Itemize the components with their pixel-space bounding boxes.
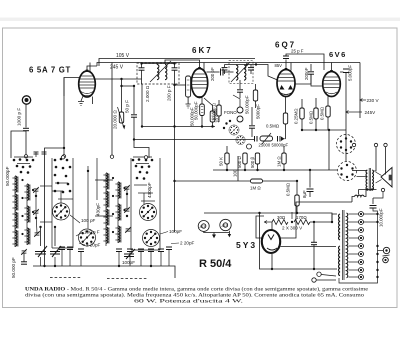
switch wafer A2	[79, 229, 96, 246]
mains terminal top	[381, 188, 384, 191]
6SA7 bottom lead	[92, 97, 94, 105]
tube 5Y3 rectifier	[262, 230, 280, 253]
resistors 30/170 ohm line	[264, 221, 272, 224]
vertical drops to bus	[41, 250, 170, 266]
vertical link to wafer A2	[87, 166, 89, 229]
6V6 plate drop wire	[345, 73, 347, 136]
6Q7 grid wire from IF2	[256, 65, 278, 81]
transformer tap circles column	[359, 212, 364, 280]
tube 6K7	[191, 69, 207, 98]
IF1 to 6K7 grid	[165, 60, 200, 69]
IF1 primary coil	[157, 65, 159, 80]
capacitor 50.000pF left	[251, 107, 253, 125]
power transformer primary lower	[339, 246, 340, 276]
ladder rungs column 2	[95, 180, 113, 216]
ATS jack right	[220, 219, 231, 230]
svg-text:200pF: 200pF	[304, 67, 309, 80]
svg-text:1000 p F: 1000 p F	[17, 108, 22, 126]
svg-text:50 K: 50 K	[219, 157, 224, 166]
resistor 1M	[283, 146, 285, 153]
AVC bus	[135, 139, 255, 141]
svg-text:6K7: 6K7	[192, 46, 213, 55]
output transformer core	[368, 168, 370, 191]
switch circle S2	[236, 135, 245, 144]
filament to field coil	[281, 202, 352, 238]
svg-text:8μF: 8μF	[302, 190, 307, 198]
assembly B inner wires	[134, 185, 155, 204]
5Y3 output wires	[281, 246, 336, 248]
ladder rungs column 1	[40, 186, 52, 222]
svg-text:6V6: 6V6	[329, 50, 347, 59]
tube 6Q7	[277, 70, 295, 97]
svg-text:5Y3: 5Y3	[236, 240, 257, 250]
resistor 0.5M right of pot	[285, 97, 287, 114]
wire transformer bottom	[322, 275, 337, 277]
rail 105V	[99, 59, 255, 67]
power transformer secondary	[347, 213, 348, 278]
6V6 cathode resistor	[327, 97, 329, 107]
wire zigzag to transformer	[310, 214, 337, 222]
switch cluster tie wires	[14, 152, 36, 164]
svg-text:245V: 245V	[365, 110, 377, 115]
svg-text:50.000pF: 50.000pF	[5, 166, 10, 186]
wires into transformer	[352, 170, 367, 172]
switch cluster mid tie wires	[133, 157, 152, 164]
svg-text:20.000 Ω: 20.000 Ω	[113, 110, 118, 129]
tuning gang capacitor 2	[50, 246, 61, 257]
trimmer capacitors column 1	[33, 187, 39, 193]
caps above cluster	[34, 152, 47, 154]
wire from bus down resistor	[296, 181, 298, 195]
tube 6V6	[323, 72, 341, 97]
svg-text:UNDA RADIO - Mod. R 50/4 - Gam: UNDA RADIO - Mod. R 50/4 - Gamma onde me…	[25, 286, 369, 293]
IF1 secondary coil	[165, 65, 167, 80]
arrow 230V	[360, 99, 366, 102]
dashed switch wafer lower right	[338, 162, 357, 181]
tube 6SA7GT	[79, 71, 96, 97]
svg-text:0.5MΩ: 0.5MΩ	[286, 182, 291, 196]
output terminals	[374, 143, 377, 146]
capacitor 200pF 6K7 plate	[207, 71, 220, 73]
svg-text:50000pF: 50000pF	[272, 143, 289, 148]
wires terminals down	[373, 147, 376, 171]
svg-text:25 p F: 25 p F	[291, 49, 304, 54]
6V6 grid wire	[311, 75, 323, 87]
mains plug circles	[317, 272, 321, 276]
IF2 top wire	[225, 64, 257, 66]
IF transformer 1 dashed box	[137, 63, 179, 84]
resistor 50K	[226, 146, 228, 153]
wire stub left x=11	[11, 131, 26, 158]
trimmer capacitors column 2	[124, 185, 130, 191]
capacitor across HV	[313, 222, 315, 242]
antenna connector	[22, 96, 30, 104]
svg-text:ATS: ATS	[222, 224, 229, 228]
junction dots column 1	[21, 179, 34, 235]
resistor 500	[255, 153, 259, 164]
6SA7 output wire to IF1	[95, 79, 121, 86]
tube top caps	[86, 67, 333, 72]
svg-text:5.000pF: 5.000pF	[348, 65, 353, 81]
switch wafer B1	[140, 204, 157, 221]
svg-text:105 V: 105 V	[116, 53, 130, 59]
field coil choke	[355, 195, 365, 196]
right bus down	[359, 63, 361, 119]
svg-text:0.25MΩ: 0.25MΩ	[294, 108, 299, 124]
svg-text:0.5MΩ: 0.5MΩ	[309, 110, 314, 124]
8uF electrolytic	[309, 170, 311, 188]
ground 6SA7 cathode	[78, 96, 84, 106]
svg-text:2 20pF: 2 20pF	[180, 241, 194, 246]
output transformer primary winding	[366, 170, 367, 190]
coil column 2b	[115, 182, 121, 243]
bus y213	[204, 213, 332, 222]
svg-text:230 V: 230 V	[367, 98, 380, 103]
6K7 plate to rail	[203, 63, 205, 71]
svg-text:50 p F: 50 p F	[125, 100, 130, 113]
pointer lines to wafers	[70, 215, 80, 223]
wires mains right	[363, 221, 377, 223]
capacitor 200pF coupling	[310, 64, 312, 71]
coil column 2 (osc coils)	[103, 173, 109, 246]
wire bus y170 to wafer	[290, 169, 337, 171]
bus y126 right	[301, 129, 303, 131]
power transformer primary upper	[339, 214, 340, 240]
svg-text:100 pF: 100 pF	[81, 218, 95, 223]
svg-text:2 20pF: 2 20pF	[86, 243, 100, 248]
svg-text:FONO: FONO	[224, 110, 237, 115]
svg-text:200 pF: 200 pF	[210, 67, 215, 81]
bus y170	[213, 169, 290, 171]
tap wires	[349, 214, 359, 277]
6Q7 feedback 25pF	[285, 60, 287, 70]
resistor 0.25M	[301, 99, 303, 108]
cap at pot left	[255, 136, 258, 142]
IF2 primary coil	[236, 65, 238, 80]
svg-text:100pF: 100pF	[122, 260, 135, 265]
6V6 plate to rail	[331, 63, 333, 72]
svg-text:5000pF: 5000pF	[256, 104, 261, 119]
capacitor 50pF	[133, 86, 135, 114]
coil column 1 (antenna coils)	[12, 176, 18, 247]
5Y3 plate wires	[271, 222, 273, 231]
resistor 10.000 (fono)	[218, 100, 220, 105]
svg-text:4300pF: 4300pF	[147, 182, 152, 198]
switch wafer A1	[53, 203, 70, 220]
power transformer core	[342, 210, 344, 280]
IF1 cap secondary	[174, 64, 176, 68]
resistor 170 ohm	[294, 220, 310, 225]
resistor 10000 ohm	[204, 98, 213, 111]
wire 346 down to wafer	[345, 135, 347, 161]
cap 5000pF	[340, 71, 344, 73]
terminal	[24, 155, 27, 158]
svg-text:ATS: ATS	[200, 225, 207, 229]
svg-text:50.000pF: 50.000pF	[194, 101, 199, 120]
resistor 0.5M under IF2	[255, 84, 257, 90]
svg-text:430pF: 430pF	[96, 203, 101, 216]
svg-text:10.000pF: 10.000pF	[379, 208, 384, 227]
switch circle S1	[229, 125, 239, 135]
IF transformer 2 dashed box	[229, 61, 253, 84]
switch cluster top-mid contacts	[132, 158, 154, 180]
switch assembly A contacts	[54, 158, 72, 194]
cap at pot right polarized	[278, 136, 281, 142]
switch assembly B frame	[131, 158, 160, 250]
resistor 20000 ohm	[120, 85, 122, 87]
svg-text:divisa (con una semigamma spos: divisa (con una semigamma spostata). Med…	[25, 292, 364, 299]
svg-text:0.5MΩ: 0.5MΩ	[266, 124, 280, 129]
wire bus y126	[142, 126, 215, 128]
gray scan streak top	[0, 18, 400, 22]
svg-text:50.000 pF: 50.000 pF	[11, 257, 16, 278]
arrow 245V	[346, 111, 362, 114]
wire to band switch	[25, 131, 27, 155]
speaker	[381, 168, 393, 188]
rail 245V	[97, 63, 360, 67]
svg-text:1M Ω: 1M Ω	[277, 156, 282, 167]
IF2 secondary coil	[244, 65, 246, 80]
svg-text:2 X 300 V: 2 X 300 V	[282, 226, 303, 231]
selector plug lower	[383, 257, 389, 263]
6SA7 plate wire to rails	[87, 66, 97, 71]
phono jack circles	[237, 107, 243, 113]
IF1 top wire	[142, 63, 175, 65]
IF2 cap secondary	[250, 65, 252, 68]
6K7 cathode components: cap 50000pF	[201, 98, 203, 105]
ground bus bottom	[33, 266, 175, 278]
speaker voice coil links	[376, 172, 382, 176]
caps row under switch B	[116, 247, 172, 252]
assembly A inner wires	[52, 183, 73, 203]
dashed switch wafer upper right	[337, 135, 356, 154]
terminal	[62, 155, 65, 158]
svg-text:R 50/4: R 50/4	[199, 258, 232, 270]
junction dots column 2	[112, 177, 126, 233]
wire antenna down	[25, 104, 27, 128]
svg-text:6 5A 7 GT: 6 5A 7 GT	[29, 66, 71, 75]
fuse tap circle	[383, 247, 389, 253]
IF2 cap primary	[224, 65, 226, 68]
svg-text:200 p F: 200 p F	[167, 85, 172, 101]
switch cluster top-left contacts	[13, 158, 35, 174]
svg-text:30Ω: 30Ω	[277, 215, 286, 220]
svg-text:100pF: 100pF	[169, 229, 182, 234]
wire vert 100pF	[237, 156, 239, 181]
switch wafer B2	[143, 230, 160, 247]
tuning gang capacitor left	[35, 246, 47, 257]
resistor 500 ohm	[243, 153, 247, 164]
switch assembly A frame	[52, 158, 73, 248]
transformer bottom bar	[359, 189, 377, 191]
gang trimmer mid	[124, 249, 135, 259]
svg-text:10.000 Ω: 10.000 Ω	[212, 102, 217, 121]
IF1 tuning arrow	[150, 61, 171, 82]
capacitor 1000pF	[23, 128, 29, 130]
wire horizontal y148	[45, 148, 65, 266]
svg-text:50.000pF: 50.000pF	[245, 95, 250, 114]
IF1 cap primary	[141, 64, 143, 68]
dashed mechanical link	[50, 277, 82, 279]
IF2 secondary bottom cap	[239, 80, 241, 89]
resistor grid 6K7	[175, 84, 186, 86]
svg-text:60 W. Potenza d'uscita 4 W.: 60 W. Potenza d'uscita 4 W.	[134, 299, 243, 305]
svg-text:25000: 25000	[259, 143, 271, 148]
wire 6SA7 left pin	[64, 78, 79, 97]
mains cap 10000pF	[372, 198, 374, 204]
IF2 tuning arrow	[231, 62, 250, 82]
svg-text:85V: 85V	[275, 63, 283, 68]
wire IF1 primary bottom down	[141, 80, 143, 84]
svg-text:170Ω: 170Ω	[296, 215, 307, 220]
svg-text:0.5MΩ: 0.5MΩ	[320, 106, 325, 120]
output transformer secondary winding	[372, 170, 373, 190]
svg-text:1M Ω: 1M Ω	[250, 186, 261, 191]
arrow down between jacks	[204, 231, 231, 239]
svg-text:2.000 Ω: 2.000 Ω	[145, 85, 150, 102]
wire screen feed x112	[111, 63, 113, 156]
resistor 30 ohm	[272, 220, 288, 225]
wire IF1 secondary bottom down long	[174, 80, 176, 232]
volume potentiometer	[260, 136, 273, 141]
ATS jack left	[198, 221, 209, 232]
caps row under switch A	[59, 247, 84, 252]
svg-text:500 β: 500 β	[250, 156, 255, 168]
6Q7 plate to rail	[290, 63, 292, 71]
bus y181	[175, 180, 298, 182]
resistor 1M horizontal	[251, 179, 263, 183]
wire 6Q7 plate right	[295, 82, 311, 84]
grid wire 6SA7 down	[63, 78, 65, 155]
resistor 0.5M right	[315, 98, 317, 108]
trimmer bottom left	[21, 249, 27, 255]
svg-text:100 p F: 100 p F	[84, 230, 100, 235]
coil column 1b	[24, 184, 30, 245]
